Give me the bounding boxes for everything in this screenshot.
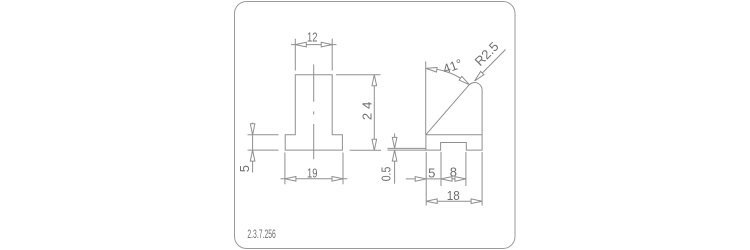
- dimension 24: [336, 75, 381, 151]
- svg-text:2.3.7.256: 2.3.7.256: [247, 229, 276, 241]
- front view outline: [285, 75, 342, 150]
- svg-text:8: 8: [450, 164, 457, 179]
- front view centerline: [313, 64, 315, 159]
- dimension 12: [291, 30, 337, 71]
- dimension 8: [441, 152, 466, 186]
- svg-text:19: 19: [307, 166, 318, 181]
- svg-text:0.5: 0.5: [379, 167, 394, 182]
- drawing border: [235, 2, 516, 249]
- svg-text:5: 5: [428, 165, 435, 180]
- dimension 5 (front view base height): [237, 123, 279, 173]
- dimension 19: [281, 153, 348, 185]
- svg-text:41°: 41°: [441, 56, 465, 77]
- radius leader R2.5: [472, 39, 506, 81]
- dimension 18: [426, 152, 482, 206]
- svg-text:24: 24: [360, 102, 375, 121]
- dimension 5 (side view): [406, 152, 441, 206]
- angle extension line: [425, 61, 427, 134]
- dimension 0.5: [379, 134, 426, 184]
- svg-text:R2.5: R2.5: [472, 39, 502, 69]
- angle dimension 41: [426, 56, 470, 86]
- side view outline: [426, 82, 482, 150]
- svg-text:18: 18: [447, 188, 460, 203]
- svg-text:5: 5: [237, 165, 252, 172]
- side view base top edge: [426, 134, 482, 136]
- svg-text:12: 12: [307, 30, 318, 45]
